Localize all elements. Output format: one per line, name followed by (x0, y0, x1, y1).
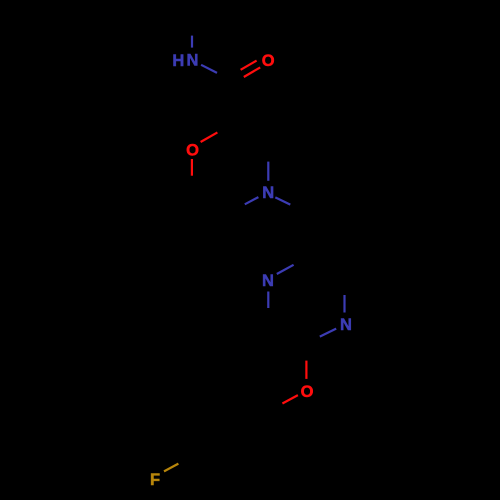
wire bond phenoxy O - pyrazine C (305, 361, 307, 379)
svg-text:F: F (150, 471, 160, 489)
wire bond pyrazine N1 - C(CH2) (277, 265, 294, 274)
wire bond morpholine O1 - C6 (191, 159, 193, 176)
svg-text:N: N (340, 316, 352, 334)
svg-text:N: N (262, 272, 274, 290)
wire bond morpholine N4 - C3 (267, 162, 269, 181)
wire bond pyrazine N4 - C5 (343, 295, 345, 313)
wire C=O double bond upper line (241, 61, 257, 70)
wire bond pyrazine N4 - C(O) (320, 329, 336, 337)
wire bond morpholine O1 - C2 (201, 132, 218, 142)
wire bond phenoxy O - phenyl C1 (282, 395, 298, 403)
wire bond morpholine N4 - C5 (245, 197, 259, 204)
wire C=O double bond lower line (244, 67, 260, 77)
wire bond amide N - carbonyl C (201, 65, 217, 73)
wire bond pyrazine N1 - C6 (267, 292, 269, 309)
svg-text:O: O (262, 52, 275, 70)
svg-text:N: N (262, 184, 274, 202)
wire bond N-CH3 (methyl tick) (191, 36, 193, 48)
wire bond morpholine N4 - CH2 linker (275, 197, 290, 204)
svg-text:H: H (172, 52, 184, 70)
svg-text:N: N (186, 52, 198, 70)
wire bond F - phenyl C4 (164, 464, 178, 472)
svg-text:O: O (186, 141, 199, 159)
svg-text:O: O (301, 383, 314, 401)
